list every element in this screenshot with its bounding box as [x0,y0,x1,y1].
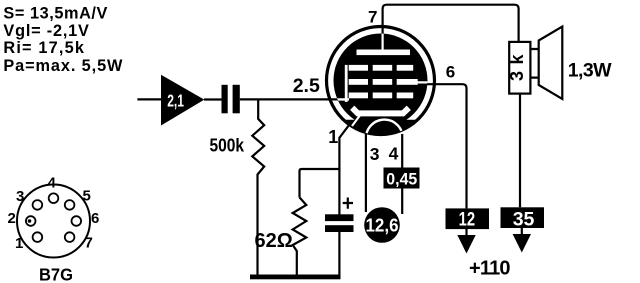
anode pin7 top wire [383,5,519,42]
svg-text:3k: 3k [507,48,527,81]
svg-text:2: 2 [8,210,16,227]
svg-text:3: 3 [370,144,380,164]
capacitor lower lead [338,232,340,276]
cathode junction wire [300,169,340,197]
svg-text:500k: 500k [210,135,245,156]
svg-text:6: 6 [446,63,455,82]
svg-text:62Ω: 62Ω [255,230,293,252]
cathode lead wire [339,121,352,216]
svg-text:4: 4 [48,175,57,192]
grid dashes row3 [349,93,368,99]
grid dashes row2 [349,79,368,85]
socket pin 2 [26,216,36,226]
heater pin 4 wire [401,134,403,214]
ground rail [250,275,341,280]
svg-text:4: 4 [389,144,399,164]
tube pin leads crossing envelope (black under disc) [382,25,384,36]
svg-text:1: 1 [328,127,338,147]
speaker coupling stubs [530,49,539,78]
svg-text:7: 7 [85,234,93,251]
svg-text:5: 5 [83,187,91,204]
pin7 lead inside [382,34,384,50]
svg-text:1: 1 [15,235,23,252]
screen grid pin6 wire [420,84,467,208]
B7G socket circle [17,185,90,258]
svg-text:3: 3 [16,188,24,205]
svg-text:12,6: 12,6 [366,215,399,236]
svg-text:Vgl= -2,1V: Vgl= -2,1V [3,22,89,40]
screen current box 12 [446,208,490,229]
socket pin 5 [65,200,75,210]
wire capacitor to grid [240,98,338,100]
arrow below 35 [521,228,523,236]
svg-text:12: 12 [459,209,476,230]
grid dashes row1 [349,65,368,71]
wire 3k to 35 box [519,94,521,208]
svg-text:Ri= 17,5k: Ri= 17,5k [3,39,84,57]
heater current box 0,45 [384,168,420,189]
wire input [137,98,161,100]
output transformer resistor 3k [509,42,530,94]
coupling capacitor C1 [222,85,228,114]
loudspeaker [539,27,563,100]
svg-text:0,45: 0,45 [386,171,417,189]
electrolytic capacitor plates [325,214,354,221]
svg-text:2,1: 2,1 [167,91,184,111]
pin6 lead inside [418,81,429,83]
heater pin 3 wire [365,134,367,212]
cathode [352,108,409,114]
electrolytic capacitor plus sign [343,198,353,209]
socket pin 7 [65,232,75,242]
socket pin 6 [72,216,82,226]
socket pin 3 [33,200,43,210]
tube envelope [327,27,435,135]
svg-text:2.5: 2.5 [293,75,320,97]
svg-text:B7G: B7G [39,265,73,283]
svg-text:Pa=max. 5,5W: Pa=max. 5,5W [3,57,123,75]
tube inner disc [334,34,428,128]
cathode lead inside [352,112,363,126]
driver stage triangle [161,75,204,126]
socket pin 1 [33,232,43,242]
svg-text:35: 35 [513,209,535,231]
resistor 500k [252,100,264,275]
wire triangle to capacitor [204,98,222,100]
heater voltage circle 12,6 [364,207,400,243]
arrow below 12 [465,229,467,237]
anode current box 35 [501,207,545,228]
grid lead inside [336,98,349,100]
svg-text:S= 13,5mA/V: S= 13,5mA/V [3,5,107,23]
grid rail [345,65,348,102]
anode plate bar [357,50,411,56]
svg-text:7: 7 [368,7,377,26]
svg-text:1,3W: 1,3W [568,59,612,81]
svg-text:+110: +110 [469,258,510,280]
socket pin 4 [49,193,59,203]
heater circle [366,120,403,157]
svg-text:6: 6 [91,210,99,227]
resistor 62ohm [293,197,307,275]
